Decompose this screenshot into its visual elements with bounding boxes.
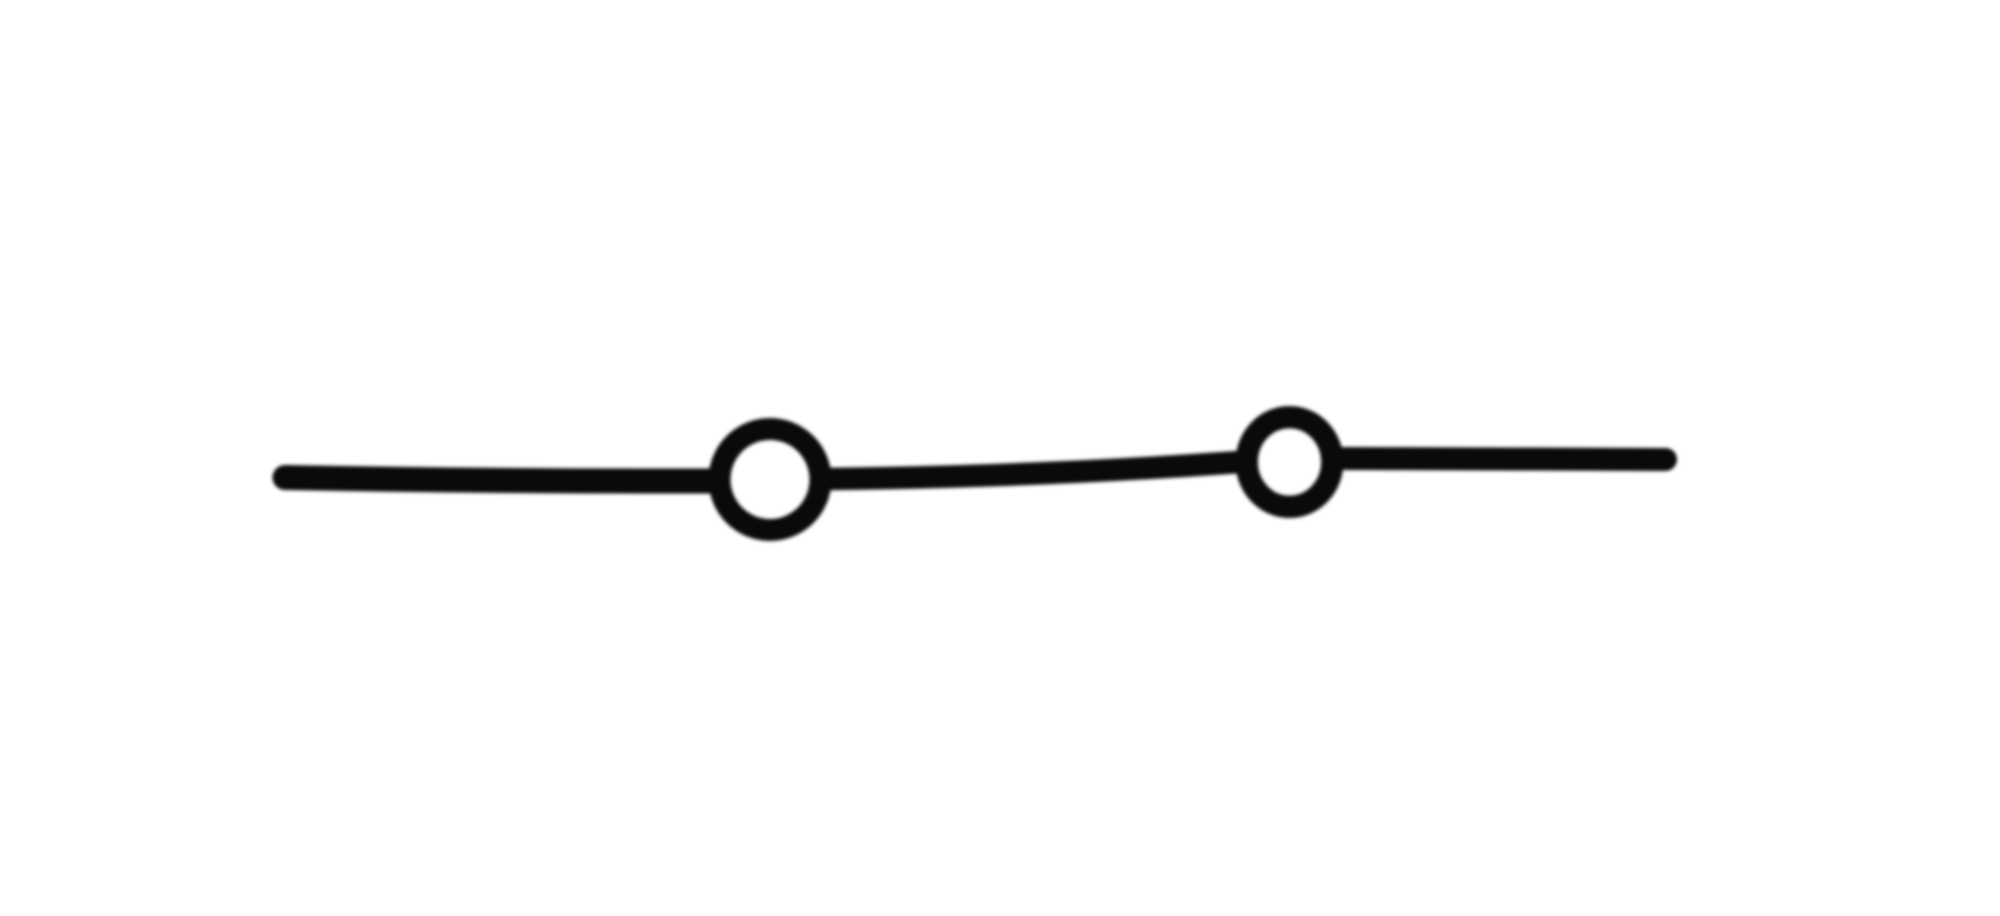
wire segment A (left lead) (285, 478, 712, 482)
node N2 (open-circle terminal, right) (1247, 417, 1333, 507)
wire segment C (right lead) (1341, 459, 1666, 460)
wire segment B (between nodes) (828, 462, 1240, 479)
node N1 (open-circle terminal, left) (720, 429, 821, 530)
